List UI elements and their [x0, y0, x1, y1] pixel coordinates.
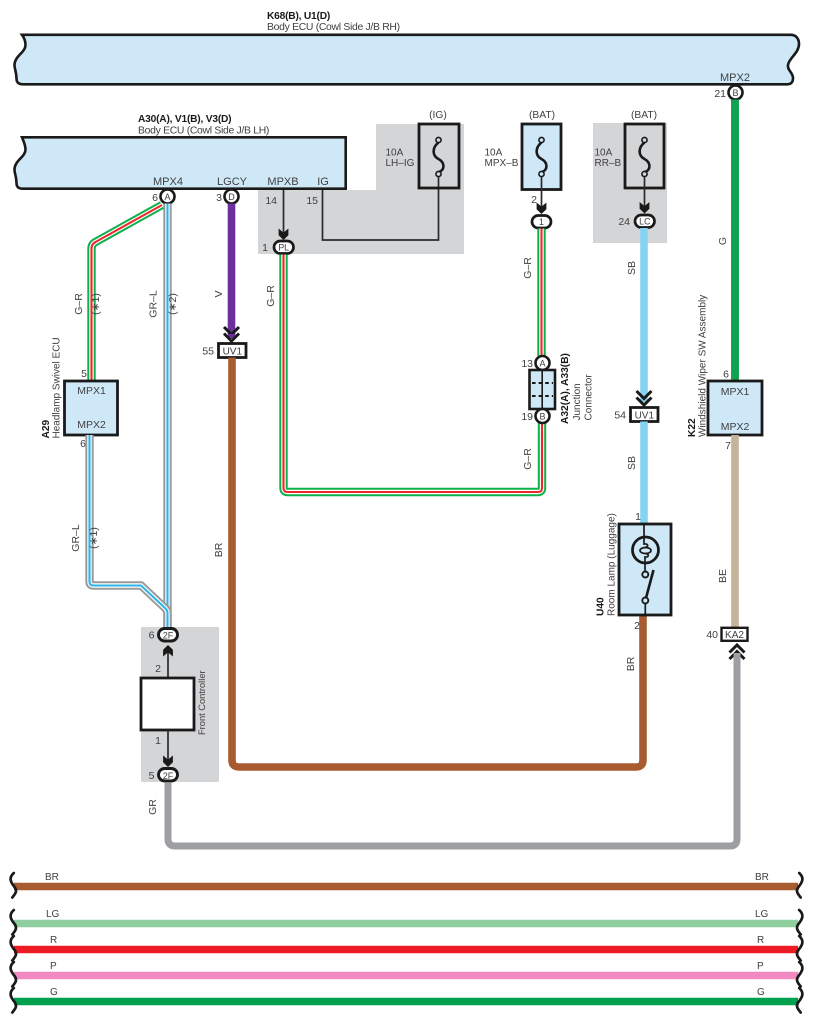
harness wire G bottom [11, 987, 803, 1013]
svg-text:10A: 10A [386, 148, 404, 159]
svg-text:R: R [50, 935, 57, 946]
svg-text:Body ECU (Cowl Side J/B LH): Body ECU (Cowl Side J/B LH) [138, 126, 269, 137]
connector 40 KA2 [706, 628, 747, 641]
svg-text:G–R: G–R [522, 257, 534, 279]
wire G-R (*1) from A to MPX1 [73, 205, 162, 381]
wire MPXB pin 14 to PL [265, 190, 288, 240]
wire V from LGCY to 55 UV1 [213, 204, 239, 342]
svg-text:21: 21 [714, 88, 726, 100]
svg-text:Front Controller: Front Controller [197, 670, 207, 735]
svg-text:UV1: UV1 [223, 347, 243, 358]
svg-text:1: 1 [635, 511, 641, 523]
svg-text:BR: BR [625, 656, 637, 671]
terminal 6 A at MPX4 [152, 190, 174, 205]
svg-text:1: 1 [539, 217, 544, 227]
svg-text:D: D [228, 192, 235, 202]
wire G-R from connector 1 to junction connector A [522, 229, 542, 357]
svg-text:BE: BE [717, 569, 729, 583]
svg-text:GR–L: GR–L [70, 524, 82, 552]
connector 1 PL [262, 241, 293, 254]
svg-text:Windshield Wiper SW Assembly: Windshield Wiper SW Assembly [698, 295, 709, 437]
connector 24 LC [618, 215, 654, 228]
svg-text:P: P [50, 961, 57, 972]
svg-text:6: 6 [149, 630, 155, 642]
svg-text:40: 40 [706, 629, 718, 641]
svg-text:BR: BR [755, 872, 769, 883]
svg-text:(∗2): (∗2) [167, 293, 179, 315]
svg-text:3: 3 [216, 192, 222, 204]
svg-text:(BAT): (BAT) [529, 110, 555, 121]
connector 55 UV1 [202, 344, 246, 358]
svg-text:(∗1): (∗1) [90, 293, 102, 315]
svg-text:5: 5 [149, 770, 155, 782]
wire front controller pin 1 to 5 2F [155, 730, 173, 767]
wire 2F to front controller pin 2 [155, 645, 173, 678]
svg-text:A30(A), V1(B), V3(D): A30(A), V1(B), V3(D) [138, 114, 231, 125]
svg-text:BR: BR [213, 542, 225, 557]
svg-text:LG: LG [46, 909, 60, 920]
wire IG pin 15 to LH-IG fuse [323, 177, 439, 240]
svg-text:K22: K22 [687, 418, 698, 437]
svg-text:MPX1: MPX1 [77, 385, 106, 397]
svg-text:13: 13 [521, 358, 533, 370]
svg-text:MPX2: MPX2 [77, 419, 106, 431]
svg-text:10A: 10A [595, 148, 613, 159]
wire G-R from PL to junction connector B [265, 255, 542, 493]
svg-text:B: B [732, 88, 738, 98]
fuse 10A LH-IG [386, 110, 460, 188]
svg-text:(IG): (IG) [429, 110, 447, 121]
svg-text:A: A [164, 192, 170, 202]
wire SB from UV1 to room lamp pin 1 [626, 422, 644, 524]
harness wire BR bottom [11, 872, 803, 898]
svg-text:G–R: G–R [73, 293, 85, 315]
room lamp U40 (Luggage) [596, 513, 672, 632]
svg-text:KA2: KA2 [725, 630, 744, 641]
wire BE from MPX2 to 40 KA2 [717, 435, 735, 628]
terminal 21 B at MPX2 [714, 86, 742, 101]
wire GR-L (*2) from A to 2F [148, 204, 180, 628]
svg-text:GR: GR [147, 799, 159, 815]
svg-text:Body ECU (Cowl Side J/B RH): Body ECU (Cowl Side J/B RH) [267, 22, 400, 33]
svg-text:Headlamp Swivel ECU: Headlamp Swivel ECU [52, 337, 63, 438]
svg-text:MPXB: MPXB [267, 176, 298, 188]
svg-text:U40: U40 [596, 597, 607, 616]
svg-text:MPX1: MPX1 [721, 386, 750, 398]
svg-text:(∗1): (∗1) [88, 527, 100, 549]
connector 6 2F [149, 629, 178, 642]
svg-text:MPX2: MPX2 [720, 72, 750, 84]
svg-text:2: 2 [155, 663, 161, 675]
wire SB from LC to 54 UV1 [626, 228, 652, 405]
svg-text:G: G [50, 987, 58, 998]
svg-text:A: A [539, 359, 545, 369]
ECU band A30 Body ECU (Cowl Side J/B LH) [15, 114, 346, 189]
svg-text:LH–IG: LH–IG [386, 158, 415, 169]
svg-text:Junction: Junction [572, 383, 583, 420]
svg-text:2F: 2F [163, 631, 174, 641]
svg-text:A32(A), A33(B): A32(A), A33(B) [560, 353, 571, 424]
junction connector A32(A) A33(B) [521, 353, 594, 424]
svg-text:2: 2 [531, 194, 537, 206]
svg-text:5: 5 [81, 368, 87, 380]
connector 5 2F [149, 769, 178, 782]
gray block around RR-B fuse [593, 123, 667, 243]
svg-text:LG: LG [755, 909, 769, 920]
svg-text:19: 19 [521, 411, 533, 423]
svg-text:P: P [757, 961, 764, 972]
gray block around LH-IG fuse [258, 124, 464, 254]
svg-text:PL: PL [278, 243, 289, 253]
svg-text:6: 6 [152, 192, 158, 204]
ECU band K68 Body ECU (Cowl Side J/B RH) [15, 11, 800, 84]
svg-text:UV1: UV1 [635, 411, 655, 422]
harness wire P bottom [11, 961, 803, 987]
svg-text:GR–L: GR–L [148, 290, 160, 318]
svg-text:IG: IG [317, 176, 329, 188]
svg-text:V: V [213, 290, 225, 297]
wire MPX-B fuse pin 2 to connector 1 [531, 177, 546, 214]
svg-text:G: G [757, 987, 765, 998]
svg-text:MPX–B: MPX–B [485, 158, 519, 169]
svg-text:G–R: G–R [522, 448, 534, 470]
svg-text:RR–B: RR–B [595, 158, 622, 169]
svg-text:10A: 10A [485, 148, 503, 159]
svg-text:6: 6 [723, 369, 729, 381]
wire GR from KA2 to front controller 5 2F [147, 645, 745, 846]
svg-text:7: 7 [725, 440, 731, 452]
svg-text:15: 15 [306, 195, 318, 207]
svg-text:2: 2 [634, 620, 640, 632]
svg-text:MPX4: MPX4 [153, 176, 183, 188]
svg-text:Connector: Connector [584, 374, 595, 421]
svg-text:LC: LC [639, 217, 651, 227]
svg-text:14: 14 [265, 195, 277, 207]
svg-text:Room Lamp (Luggage): Room Lamp (Luggage) [607, 513, 618, 616]
harness wire R bottom [11, 935, 803, 961]
svg-text:G–R: G–R [265, 285, 277, 307]
wire GR-L (*1) from MPX2 to 2F [70, 435, 168, 627]
svg-text:A29: A29 [41, 419, 52, 438]
terminal 3 D at LGCY [216, 190, 238, 205]
wire RR-B fuse pin to LC [640, 177, 650, 214]
fuse 10A MPX-B [485, 110, 562, 190]
harness wire LG bottom [11, 909, 803, 935]
svg-text:G: G [717, 237, 729, 245]
wire G from 21 B to K22 MPX1 [717, 100, 735, 382]
front controller box [141, 670, 207, 735]
svg-text:55: 55 [202, 346, 214, 358]
svg-text:(BAT): (BAT) [631, 110, 657, 121]
svg-text:R: R [757, 935, 764, 946]
fuse 10A RR-B [595, 110, 665, 188]
svg-text:1: 1 [262, 242, 268, 254]
svg-text:LGCY: LGCY [217, 176, 248, 188]
svg-text:SB: SB [626, 261, 638, 275]
connector 54 UV1 [614, 408, 658, 422]
svg-text:SB: SB [626, 456, 638, 470]
svg-text:BR: BR [45, 872, 59, 883]
svg-text:1: 1 [155, 735, 161, 747]
switch K22 Windshield Wiper SW Assembly [687, 295, 762, 452]
svg-text:6: 6 [80, 438, 86, 450]
gray block around Front Controller [141, 627, 219, 782]
svg-text:24: 24 [618, 216, 630, 228]
svg-text:B: B [539, 412, 545, 422]
svg-text:2F: 2F [163, 771, 174, 781]
svg-text:MPX2: MPX2 [721, 421, 750, 433]
connector oval 1 below MPX-B fuse [532, 216, 551, 229]
svg-text:54: 54 [614, 410, 626, 422]
ECU A29 Headlamp Swivel ECU [41, 337, 118, 450]
wire BR from UV1 to room lamp pin 2 [213, 358, 643, 768]
svg-text:K68(B), U1(D): K68(B), U1(D) [267, 11, 330, 22]
